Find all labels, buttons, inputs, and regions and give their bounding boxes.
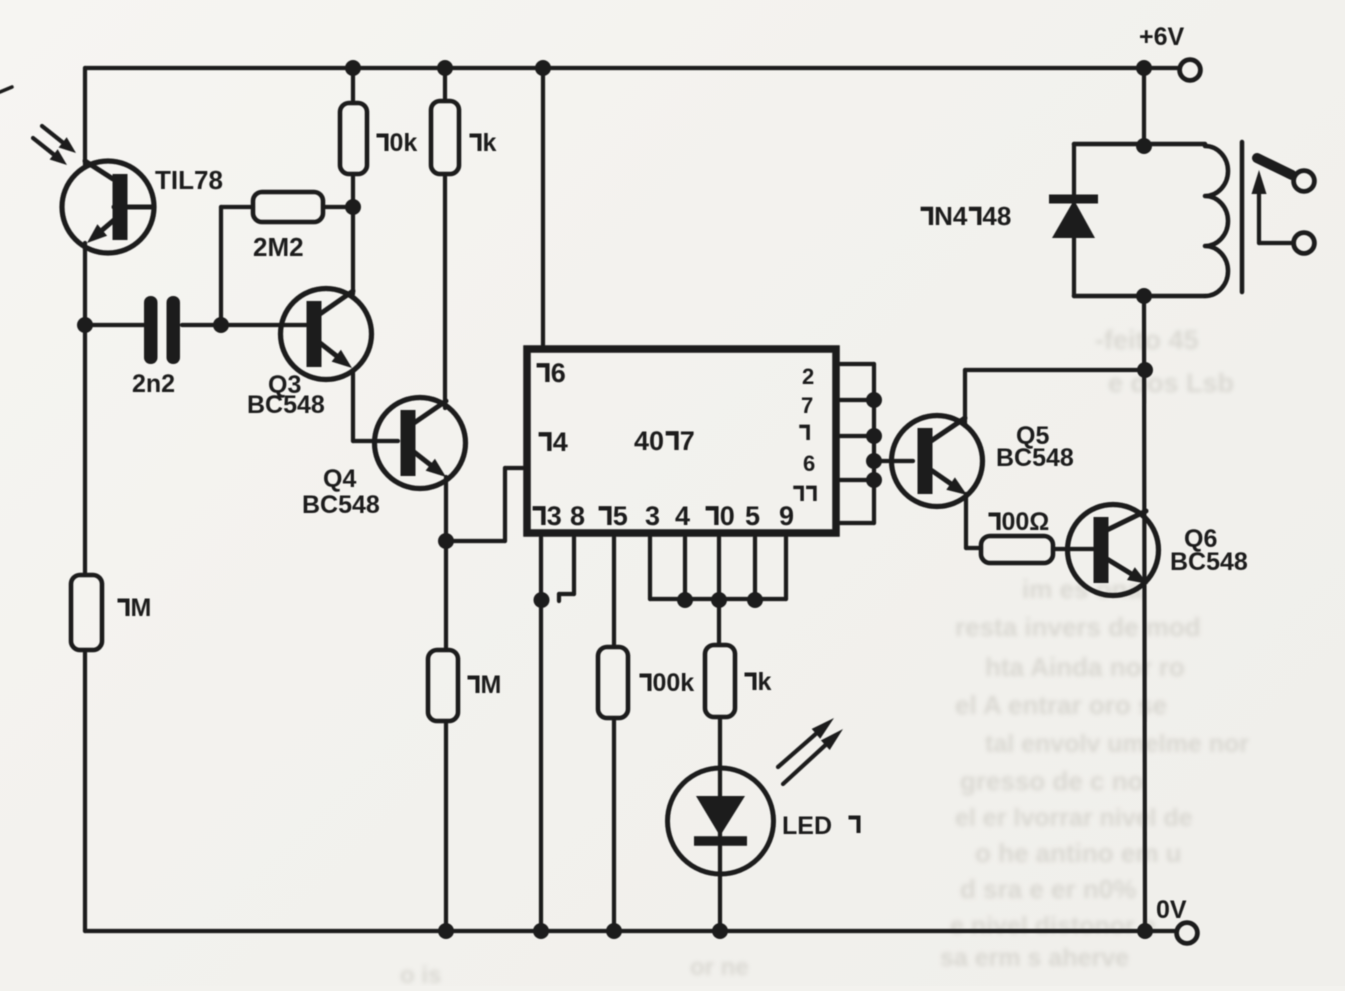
svg-text:Q4: Q4 — [323, 465, 356, 493]
svg-text:0: 0 — [720, 501, 735, 531]
svg-text:5: 5 — [745, 501, 760, 531]
svg-text:tal envolv umelme nor: tal envolv umelme nor — [985, 730, 1249, 758]
svg-text:2M2: 2M2 — [253, 232, 304, 262]
svg-text:hta Ainda nor ro: hta Ainda nor ro — [985, 652, 1185, 682]
svg-text:4: 4 — [675, 501, 690, 531]
svg-text:4: 4 — [553, 427, 568, 457]
svg-text:o he antino em u: o he antino em u — [975, 838, 1182, 868]
svg-text:2n2: 2n2 — [132, 370, 175, 398]
svg-text:6: 6 — [803, 451, 815, 476]
svg-text:el A entrar oro se: el A entrar oro se — [955, 690, 1167, 720]
svg-text:e dos Lsb: e dos Lsb — [1108, 368, 1234, 398]
svg-text:7: 7 — [680, 426, 695, 456]
svg-text:0V: 0V — [1156, 896, 1187, 924]
svg-text:BC548: BC548 — [302, 491, 380, 519]
svg-text:00k: 00k — [653, 669, 695, 697]
svg-text:BC548: BC548 — [996, 444, 1074, 472]
svg-text:or ne: or ne — [690, 954, 749, 981]
svg-text:00Ω: 00Ω — [1002, 508, 1050, 536]
svg-text:o is: o is — [400, 962, 441, 986]
svg-text:40: 40 — [634, 426, 664, 456]
svg-text:BC548: BC548 — [1170, 548, 1248, 576]
svg-text:N4: N4 — [934, 201, 968, 231]
svg-text:3: 3 — [547, 501, 562, 531]
svg-text:7: 7 — [801, 393, 813, 418]
svg-text:-feito 45: -feito 45 — [1095, 325, 1199, 355]
svg-text:M: M — [131, 594, 152, 622]
svg-text:0k: 0k — [390, 129, 418, 157]
svg-text:LED: LED — [782, 812, 832, 840]
svg-text:2: 2 — [802, 364, 814, 389]
svg-text:gresso de c no: gresso de c no — [960, 766, 1144, 796]
svg-text:k: k — [758, 668, 772, 696]
svg-text:k: k — [483, 129, 497, 157]
svg-text:6: 6 — [551, 358, 566, 388]
svg-text:el er lvorrar nivel de: el er lvorrar nivel de — [955, 804, 1193, 832]
svg-text:resta invers de mod: resta invers de mod — [955, 612, 1201, 642]
svg-text:BC548: BC548 — [247, 391, 325, 419]
svg-text:sa erm s aherve: sa erm s aherve — [940, 944, 1129, 972]
svg-text:48: 48 — [982, 201, 1011, 231]
svg-text:8: 8 — [570, 501, 585, 531]
svg-text:TIL78: TIL78 — [155, 165, 223, 195]
svg-text:+6V: +6V — [1139, 23, 1185, 51]
svg-text:M: M — [481, 671, 502, 699]
svg-text:5: 5 — [613, 501, 628, 531]
svg-text:3: 3 — [645, 501, 660, 531]
svg-text:d sra e er n0%: d sra e er n0% — [960, 874, 1136, 904]
svg-text:9: 9 — [779, 501, 794, 531]
svg-text:im es ona: im es ona — [1022, 574, 1142, 604]
svg-text:e nivel distonor e: e nivel distonor e — [950, 912, 1156, 940]
